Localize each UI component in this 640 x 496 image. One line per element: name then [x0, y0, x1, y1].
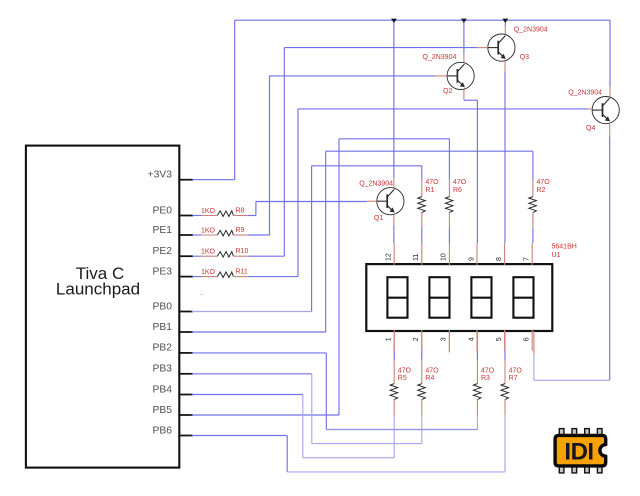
svg-text:4: 4: [468, 337, 475, 341]
svg-text:1KO: 1KO: [201, 227, 216, 234]
svg-text:Q_2N3904: Q_2N3904: [423, 54, 457, 61]
svg-text:47O: 47O: [425, 368, 439, 375]
svg-text:PE0: PE0: [153, 205, 173, 216]
svg-text:2: 2: [413, 337, 420, 341]
svg-text:R8: R8: [236, 207, 245, 214]
svg-text:PB5: PB5: [153, 405, 173, 416]
svg-text:9: 9: [468, 257, 475, 261]
svg-text:47O: 47O: [537, 179, 551, 186]
svg-text:PB0: PB0: [153, 301, 173, 312]
svg-text:Q1: Q1: [374, 215, 383, 222]
svg-text:1KO: 1KO: [201, 249, 216, 256]
svg-text:PB3: PB3: [153, 364, 173, 375]
svg-text:PE1: PE1: [153, 225, 173, 236]
svg-text:PB2: PB2: [153, 343, 173, 354]
svg-text:PB6: PB6: [153, 425, 173, 436]
svg-text:Q_2N3904: Q_2N3904: [514, 27, 548, 34]
svg-text:R10: R10: [236, 248, 249, 255]
svg-text:12: 12: [386, 253, 393, 261]
svg-text:8: 8: [496, 257, 503, 261]
svg-text:47O: 47O: [425, 179, 439, 186]
svg-text:1KO: 1KO: [201, 269, 216, 276]
svg-text:5641BH: 5641BH: [552, 243, 577, 250]
svg-text:R5: R5: [398, 375, 407, 382]
svg-text:R3: R3: [481, 375, 490, 382]
svg-text:1KO: 1KO: [201, 208, 216, 215]
svg-text:7: 7: [524, 257, 531, 261]
svg-text:PB4: PB4: [153, 384, 173, 395]
svg-text:47O: 47O: [453, 179, 467, 186]
svg-text:5: 5: [496, 337, 503, 341]
svg-text:R6: R6: [453, 187, 462, 194]
svg-text:R1: R1: [425, 187, 434, 194]
svg-text:PE3: PE3: [153, 266, 173, 277]
svg-text:+3V3: +3V3: [148, 170, 173, 181]
svg-text:Q_2N3904: Q_2N3904: [359, 180, 393, 187]
svg-text:PE2: PE2: [153, 246, 173, 257]
svg-text:Launchpad: Launchpad: [56, 280, 140, 299]
svg-text:..: ..: [200, 290, 204, 297]
svg-text:R9: R9: [236, 227, 245, 234]
svg-text:47O: 47O: [481, 368, 495, 375]
svg-text:6: 6: [524, 337, 531, 341]
svg-text:Q2: Q2: [443, 88, 452, 95]
svg-text:10: 10: [441, 253, 448, 261]
svg-text:1: 1: [386, 337, 393, 341]
svg-text:Q3: Q3: [520, 54, 529, 61]
svg-text:R7: R7: [509, 375, 518, 382]
svg-text:47O: 47O: [509, 368, 523, 375]
svg-text:Q4: Q4: [586, 125, 595, 132]
svg-text:R4: R4: [425, 375, 434, 382]
svg-text:IDI: IDI: [564, 439, 593, 466]
svg-text:PB1: PB1: [153, 322, 173, 333]
svg-text:47O: 47O: [398, 368, 412, 375]
svg-text:U1: U1: [552, 252, 561, 259]
svg-text:R11: R11: [236, 268, 248, 275]
svg-text:Q_2N3904: Q_2N3904: [568, 90, 602, 97]
svg-text:11: 11: [413, 254, 420, 261]
svg-text:R2: R2: [537, 187, 546, 194]
svg-text:3: 3: [441, 337, 448, 341]
